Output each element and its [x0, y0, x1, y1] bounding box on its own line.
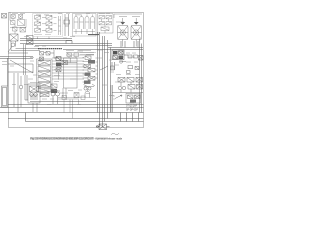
vertical trunk wires center — [98, 32, 111, 127]
motor block F2 — [131, 18, 142, 47]
wire top-right labels — [114, 14, 142, 18]
border frame — [9, 13, 144, 128]
label text specks scattered — [2, 13, 144, 107]
motor block F1 — [118, 18, 129, 47]
pump cluster P — [25, 75, 40, 103]
valve bank B dashed box — [33, 14, 63, 40]
valve S below frame — [96, 124, 110, 130]
stamp mark — [111, 133, 119, 135]
wire bus lines upper — [0, 39, 143, 87]
main valve bank J — [37, 59, 58, 97]
valve block G header bar — [38, 49, 68, 67]
cluster H small parts row — [66, 53, 94, 59]
pump group left — [8, 34, 40, 53]
bottom bus wires — [0, 102, 144, 122]
valve group T lower right — [111, 85, 141, 113]
manifold D arches — [73, 14, 97, 37]
svg-text:DT-07-05P: DT-07-05P — [126, 106, 138, 108]
label text specks — [12, 13, 135, 95]
cluster I right mid dark block — [100, 50, 128, 70]
pump U-loop — [85, 89, 90, 98]
cluster M right valves — [111, 55, 144, 93]
pump circles P2 — [30, 91, 60, 112]
inline coolers Q — [38, 86, 96, 119]
svg-text:SP-DP-05P: SP-DP-05P — [126, 110, 138, 112]
dense valve group L — [83, 55, 98, 91]
valve V0 far left edge — [2, 14, 7, 19]
cylinder K — [56, 57, 77, 98]
right edge trunk wires — [140, 39, 142, 113]
tank T1 — [2, 86, 8, 107]
cluster C twin verticals — [64, 14, 70, 36]
wire connectors from bank J — [52, 58, 84, 79]
cluster A top-left valve ladder — [10, 12, 26, 34]
cluster E box — [98, 14, 114, 34]
wire diagonals left — [8, 44, 33, 112]
